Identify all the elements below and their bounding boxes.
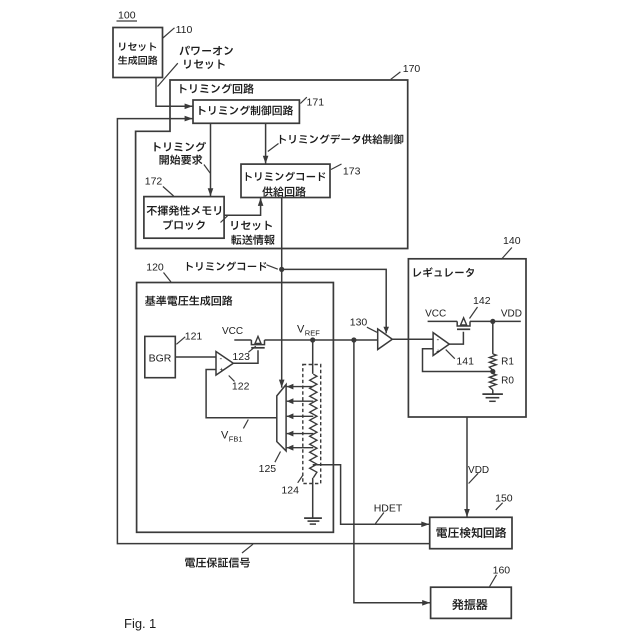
svg-text:130: 130 (350, 317, 368, 329)
wire trimming code branch to buffer 130 (282, 269, 387, 333)
svg-text:150: 150 (495, 493, 513, 505)
svg-text:172: 172 (145, 176, 163, 188)
wire trimming start request (171 to 172) (210, 123, 212, 196)
op-amp 122 triangle (216, 352, 233, 376)
ground symbol (box 140) (482, 393, 503, 395)
svg-text:R1: R1 (501, 357, 514, 368)
svg-text:FB1: FB1 (229, 435, 243, 444)
svg-text:BGR: BGR (149, 353, 172, 365)
box 172 title 不揮発性メモリ (147, 205, 221, 215)
svg-text:-: - (437, 335, 440, 344)
resistor R0 zigzag (489, 374, 496, 390)
svg-text:VDD: VDD (468, 465, 489, 476)
label 生成回路 (box 110 line 2) (118, 56, 157, 65)
svg-text:VDD: VDD (501, 309, 522, 320)
wire VDD node down to R1 (492, 321, 494, 354)
wire VREF to buffer 130 (313, 339, 378, 341)
wire VREF ladder top (312, 340, 314, 374)
svg-text:110: 110 (176, 24, 193, 36)
net label 電圧保証信号 (185, 557, 250, 567)
svg-text:VCC: VCC (425, 309, 446, 320)
box 160 title 発振器 (452, 599, 487, 610)
svg-text:-: - (220, 354, 223, 363)
svg-text:V: V (221, 430, 229, 442)
wire feedback VFB1 (selector 125 to op-amp 122) (206, 370, 277, 418)
svg-text:173: 173 (343, 166, 361, 178)
wire VCC stub to transistor 142 (428, 320, 458, 322)
oscillator box 160 (431, 587, 512, 618)
leader tick trimming code (267, 265, 278, 269)
box 120 title 基準電圧生成回路 (145, 296, 232, 306)
wire VREF to oscillator 160 (354, 340, 430, 603)
wire op-amp 141 output to gate of 142 (449, 332, 463, 344)
svg-text:141: 141 (456, 356, 474, 368)
junction R1-R0 feedback node (490, 369, 495, 374)
net label リセット (reset) (184, 60, 225, 70)
wire R0 to ground (492, 390, 494, 394)
transistor 123 (PMOS pass device) (251, 340, 264, 345)
svg-text:REF: REF (305, 329, 320, 338)
svg-text:170: 170 (403, 63, 421, 75)
resistor R1 zigzag (489, 354, 496, 370)
box 150 title 電圧検知回路 (436, 527, 506, 538)
wire VCC stub to transistor 123 (234, 339, 251, 341)
svg-text:142: 142 (473, 295, 491, 307)
junction trimming code node (279, 267, 284, 272)
buffer 130 triangle (378, 329, 393, 350)
svg-text:125: 125 (259, 463, 277, 475)
wire op-amp 122 output to gate of 123 (233, 350, 258, 363)
leader tick VDD (469, 473, 479, 483)
leader tick HDET (375, 513, 384, 524)
transistor 142 (PMOS pass device) (457, 321, 470, 326)
box 172 title ブロック (163, 220, 204, 230)
trimming control circuit box 171 (193, 100, 299, 123)
svg-text:R0: R0 (501, 375, 514, 386)
svg-text:+: + (436, 348, 440, 355)
ground symbol (box 120) (304, 517, 322, 519)
leader tick trimming start request (204, 165, 210, 174)
resistor ladder 124 zigzag (310, 374, 317, 478)
svg-text:HDET: HDET (374, 503, 403, 515)
leader tick trimming data supply control (268, 144, 279, 152)
selector 125 trapezoid (277, 385, 286, 451)
leader tick voltage guarantee signal (242, 544, 253, 553)
box 173 title トリミングコード (246, 172, 325, 181)
svg-text:123: 123 (232, 351, 250, 363)
svg-text:1: 1 (149, 616, 156, 631)
label リセット (box 110 line 1) (119, 43, 156, 52)
svg-text:124: 124 (281, 485, 299, 497)
svg-text:171: 171 (307, 97, 325, 109)
tap wires from ladder 124 into selector 125 (5 arrows) (287, 386, 314, 388)
svg-text:121: 121 (185, 331, 203, 343)
box 170 title トリミング回路 (180, 84, 253, 94)
wire buffer 130 output to regulator op-amp 141 (392, 338, 433, 340)
wire trimming code vertical (173 down to selector 125) (281, 198, 283, 388)
leader tick reset transfer info (221, 216, 228, 223)
reference voltage generation circuit box 120 (137, 283, 334, 533)
junction VREF branch to oscillator (351, 337, 356, 342)
box 173 title 供給回路 (262, 186, 305, 196)
wire feedback (R1/R0 node to op-amp 141) (423, 349, 493, 372)
wire HDET (ladder tap to voltage detection circuit 150) (313, 465, 430, 525)
BGR box 121 (145, 336, 176, 377)
net label 開始要求 (start request) (160, 155, 203, 165)
non-volatile memory block box 172 (144, 197, 224, 239)
leader tick power-on reset (158, 63, 178, 86)
wire drain of 123 to VREF node (265, 339, 313, 341)
net label パワーオン (power-on) (180, 46, 233, 56)
dashed box around resistor ladder 124 (303, 365, 321, 484)
trimming code supply circuit box 173 (241, 164, 330, 197)
wire BGR output to op-amp 122 (175, 356, 216, 358)
wire drain of 142 to VDD (470, 320, 521, 322)
box 140 title レギュレータ (414, 267, 474, 277)
svg-text:V: V (297, 324, 305, 336)
wire power-on reset from box 110 to box 171 (156, 78, 193, 107)
svg-text:120: 120 (146, 262, 164, 274)
svg-text:140: 140 (503, 235, 521, 247)
reset generation circuit box 110 (113, 28, 163, 78)
net label 転送情報 (transfer info) (231, 235, 274, 245)
wire ladder bottom to ground (312, 478, 314, 518)
regulator box 140 (408, 259, 526, 417)
svg-text:+: + (220, 367, 224, 374)
net label トリミング (trimming) (154, 142, 206, 152)
svg-text:Fig.: Fig. (124, 616, 146, 631)
leader tick VFB1 (243, 420, 248, 429)
wire reset transfer info (172 to 173) (224, 198, 261, 215)
wire VDD (box 140 to voltage detection circuit 150) (466, 417, 468, 517)
trimming circuit box 170 (notched rectangle) (136, 80, 408, 249)
junction VREF node (310, 337, 315, 342)
svg-text:100: 100 (118, 10, 136, 22)
box 171 title トリミング制御回路 (199, 105, 293, 115)
wire voltage guarantee signal (150 to 171) (117, 119, 429, 544)
net label トリミングデータ供給制御 (280, 134, 403, 144)
svg-text:VCC: VCC (222, 326, 243, 337)
svg-text:122: 122 (232, 381, 250, 393)
net label リセット (reset transfer 1) (231, 221, 272, 231)
voltage detection circuit box 150 (430, 517, 512, 548)
wire R1 to R0 (492, 370, 494, 374)
svg-text:160: 160 (493, 565, 511, 577)
op-amp 141 triangle (433, 333, 449, 356)
wire trimming data supply control (171 to 173) (265, 123, 267, 163)
junction VDD node (490, 319, 495, 324)
net label トリミングコード (187, 262, 266, 271)
